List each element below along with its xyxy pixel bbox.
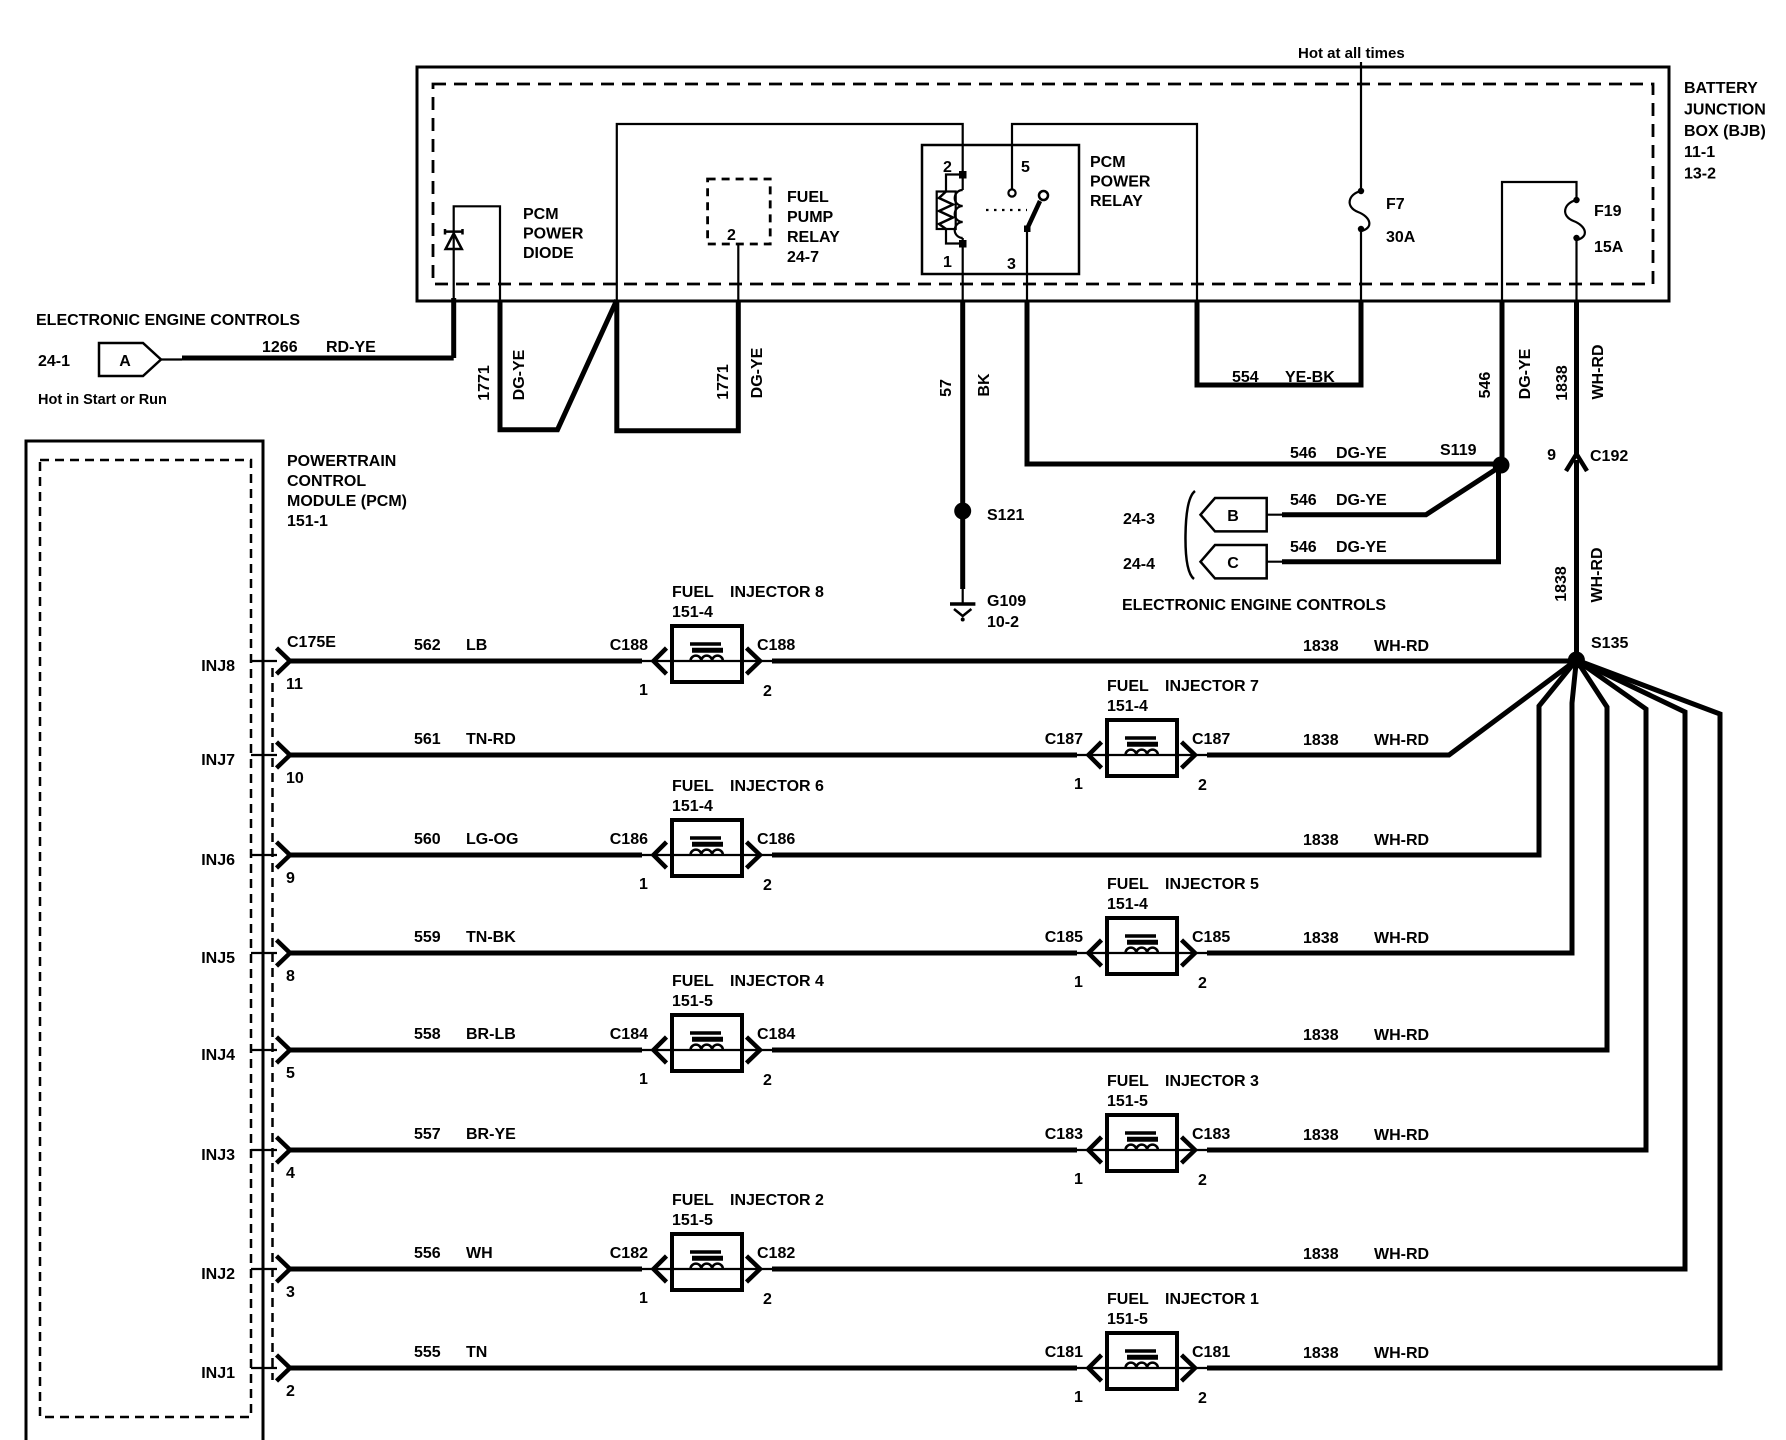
connector C185 right arrow — [1182, 940, 1196, 966]
connector C175E dashed line — [271, 668, 274, 1380]
svg-text:C184: C184 — [610, 1026, 648, 1043]
svg-text:DIODE: DIODE — [523, 245, 574, 262]
svg-text:WH-RD: WH-RD — [1589, 547, 1606, 602]
svg-text:S119: S119 — [1440, 442, 1477, 459]
svg-text:FUEL: FUEL — [1107, 678, 1149, 695]
svg-text:554: 554 — [1232, 369, 1259, 386]
connector C184 left arrow — [654, 1037, 667, 1063]
svg-text:1: 1 — [639, 1071, 648, 1088]
svg-text:MODULE (PCM): MODULE (PCM) — [287, 493, 407, 510]
svg-text:10-2: 10-2 — [987, 614, 1019, 631]
connector C183 left arrow — [1089, 1137, 1102, 1163]
wire 554 YE-BK — [1197, 301, 1361, 385]
svg-text:INJ2: INJ2 — [201, 1266, 235, 1283]
svg-text:JUNCTION: JUNCTION — [1684, 101, 1766, 118]
fuel injector 5 — [1107, 918, 1177, 974]
svg-text:INJECTOR 2: INJECTOR 2 — [730, 1192, 824, 1209]
svg-text:1: 1 — [1074, 1171, 1083, 1188]
svg-text:INJECTOR 5: INJECTOR 5 — [1165, 876, 1259, 893]
connector C183 right arrow — [1182, 1137, 1196, 1163]
svg-text:57: 57 — [938, 379, 955, 397]
wire through injector 6 — [642, 854, 772, 856]
svg-text:13-2: 13-2 — [1684, 166, 1716, 183]
label 560 LG-OG — [414, 831, 518, 848]
svg-text:INJ4: INJ4 — [201, 1047, 235, 1064]
svg-text:1838: 1838 — [1303, 832, 1339, 849]
label 557 BR-YE — [414, 1126, 516, 1143]
connector C185 left arrow — [1089, 940, 1102, 966]
svg-text:151-5: 151-5 — [672, 993, 713, 1010]
pcm power diode — [445, 206, 500, 358]
wire relay pin 2 feed from diode — [617, 124, 963, 301]
svg-text:TN: TN — [466, 1344, 487, 1361]
wire through injector 8 — [642, 660, 772, 662]
battery junction box label — [1684, 80, 1766, 183]
fuel pump relay label — [787, 189, 840, 266]
fuel injector 6 label — [672, 778, 824, 815]
wire 561 TN-RD PCM INJ7 pin 10 — [251, 754, 277, 756]
wire 546 DG-YE F19 left leg to S119 — [1500, 301, 1505, 465]
splice S121 — [954, 503, 971, 520]
svg-text:S121: S121 — [987, 507, 1024, 524]
svg-text:559: 559 — [414, 929, 441, 946]
svg-text:151-5: 151-5 — [672, 1212, 713, 1229]
svg-text:INJECTOR 4: INJECTOR 4 — [730, 973, 824, 990]
label 1838 WH-RD row INJ3 — [1303, 1127, 1429, 1144]
svg-text:INJ6: INJ6 — [201, 852, 235, 869]
fuel injector 4 — [672, 1015, 742, 1071]
svg-text:POWERTRAIN: POWERTRAIN — [287, 453, 396, 470]
svg-text:24-4: 24-4 — [1123, 556, 1155, 573]
svg-text:556: 556 — [414, 1245, 441, 1262]
wire 546 DG-YE relay pin 3 to S119 — [1026, 230, 1028, 301]
svg-text:8: 8 — [286, 968, 295, 985]
wire hot feed down to fuse F7 — [1360, 62, 1362, 190]
svg-text:BK: BK — [976, 373, 993, 397]
connector C188 left arrow — [654, 648, 667, 674]
svg-text:1266: 1266 — [262, 339, 298, 356]
fuse F7 30A — [1350, 188, 1416, 246]
label 1838 WH-RD row INJ5 — [1303, 930, 1429, 947]
svg-text:DG-YE: DG-YE — [511, 349, 528, 400]
wire 1838 WH-RD INJ1 to S135 — [1207, 660, 1720, 1368]
label 1838 WH-RD row INJ1 — [1303, 1345, 1429, 1362]
svg-text:555: 555 — [414, 1344, 441, 1361]
wire 556 WH PCM INJ2 pin 3 — [251, 1268, 277, 1270]
svg-text:Hot at all times: Hot at all times — [1298, 45, 1405, 62]
svg-text:2: 2 — [1198, 975, 1207, 992]
svg-text:1: 1 — [1074, 974, 1083, 991]
svg-text:C175E: C175E — [287, 634, 336, 651]
svg-text:C192: C192 — [1590, 448, 1628, 465]
svg-text:INJ1: INJ1 — [201, 1365, 235, 1382]
svg-text:C182: C182 — [610, 1245, 648, 1262]
brace for B and C — [1185, 491, 1195, 579]
wire through injector 2 — [642, 1268, 772, 1270]
label 1838 WH-RD row INJ2 — [1303, 1246, 1429, 1263]
fuel pump relay dashed box — [708, 179, 771, 244]
wire through injector 7 — [1077, 754, 1207, 756]
svg-text:546: 546 — [1290, 492, 1317, 509]
svg-text:INJECTOR 6: INJECTOR 6 — [730, 778, 824, 795]
svg-text:5: 5 — [1021, 159, 1030, 176]
svg-text:PCM: PCM — [523, 206, 559, 223]
wire F7 to 554 jog — [1360, 229, 1362, 301]
svg-text:INJECTOR 1: INJECTOR 1 — [1165, 1291, 1259, 1308]
wire 555 TN PCM INJ1 pin 2 — [251, 1367, 277, 1369]
svg-text:24-3: 24-3 — [1123, 511, 1155, 528]
label 562 LB — [414, 637, 487, 654]
svg-text:F7: F7 — [1386, 196, 1405, 213]
svg-text:DG-YE: DG-YE — [749, 347, 766, 398]
svg-text:POWER: POWER — [1090, 174, 1151, 191]
label 1266 RD-YE — [262, 339, 376, 356]
svg-text:561: 561 — [414, 731, 441, 748]
svg-text:2: 2 — [763, 1072, 772, 1089]
wire 1771 DG-YE diode jog — [500, 300, 617, 430]
label 558 BR-LB — [414, 1026, 516, 1043]
svg-text:2: 2 — [286, 1383, 295, 1400]
svg-text:546: 546 — [1477, 372, 1494, 399]
powertrain control module dashed boundary — [40, 460, 251, 1417]
wire 558 BR-LB PCM INJ4 pin 5 — [251, 1049, 277, 1051]
label 1838 WH-RD row INJ6 — [1303, 832, 1429, 849]
label 1838 WH-RD row INJ8 — [1303, 638, 1429, 655]
svg-text:1771: 1771 — [715, 364, 732, 400]
label 546 DG-YE — [1290, 445, 1387, 462]
svg-text:FUEL: FUEL — [1107, 1291, 1149, 1308]
svg-text:FUEL: FUEL — [1107, 876, 1149, 893]
svg-text:WH-RD: WH-RD — [1374, 1345, 1429, 1362]
svg-text:WH-RD: WH-RD — [1374, 1027, 1429, 1044]
svg-text:24-7: 24-7 — [787, 249, 819, 266]
svg-text:INJ3: INJ3 — [201, 1147, 235, 1164]
fuel injector 1 — [1107, 1333, 1177, 1389]
svg-text:C188: C188 — [757, 637, 795, 654]
fuel injector 8 label — [672, 584, 824, 621]
svg-text:C: C — [1227, 555, 1239, 572]
fuel injector 1 label — [1107, 1291, 1259, 1328]
svg-text:A: A — [119, 353, 131, 370]
svg-text:RELAY: RELAY — [1090, 193, 1143, 210]
svg-text:FUEL: FUEL — [672, 1192, 714, 1209]
label 554 YE-BK — [1232, 369, 1335, 386]
svg-text:DG-YE: DG-YE — [1336, 445, 1387, 462]
svg-text:INJECTOR 3: INJECTOR 3 — [1165, 1073, 1259, 1090]
svg-text:9: 9 — [1547, 447, 1556, 464]
svg-text:151-4: 151-4 — [1107, 698, 1148, 715]
svg-text:LG-OG: LG-OG — [466, 831, 518, 848]
svg-text:560: 560 — [414, 831, 441, 848]
battery junction box (BJB) outline — [417, 67, 1669, 301]
svg-text:BATTERY: BATTERY — [1684, 80, 1758, 97]
svg-text:PUMP: PUMP — [787, 209, 834, 226]
wire relay pin 5 to BJB — [1012, 124, 1197, 301]
svg-text:INJ8: INJ8 — [201, 658, 235, 675]
svg-text:1: 1 — [639, 876, 648, 893]
svg-text:5: 5 — [286, 1065, 295, 1082]
wire 1838 WH-RD INJ4 to S135 — [772, 660, 1607, 1050]
svg-text:INJECTOR 8: INJECTOR 8 — [730, 584, 824, 601]
pcm power diode label — [523, 206, 584, 262]
label 1838 WH-RD row INJ7 — [1303, 732, 1429, 749]
svg-text:2: 2 — [763, 877, 772, 894]
wire S121 to ground — [960, 511, 965, 589]
label 546 DG-YE row B — [1290, 492, 1387, 509]
svg-text:151-1: 151-1 — [287, 513, 328, 530]
svg-text:1838: 1838 — [1553, 566, 1570, 602]
wire 1838 WH-RD INJ8 to S135 — [772, 659, 1576, 664]
svg-text:WH-RD: WH-RD — [1374, 1127, 1429, 1144]
wire 1838 WH-RD INJ7 to S135 — [1207, 660, 1576, 755]
pcm power relay label — [1090, 154, 1151, 210]
wire 1838 WH-RD INJ2 to S135 — [772, 660, 1685, 1269]
svg-text:2: 2 — [727, 227, 736, 244]
svg-text:C186: C186 — [757, 831, 795, 848]
svg-text:9: 9 — [286, 870, 295, 887]
svg-text:3: 3 — [286, 1284, 295, 1301]
svg-text:10: 10 — [286, 770, 304, 787]
svg-text:2: 2 — [1198, 1390, 1207, 1407]
connector C186 left arrow — [654, 842, 667, 868]
svg-text:1: 1 — [1074, 1389, 1083, 1406]
battery junction box dashed boundary — [433, 84, 1653, 284]
svg-text:DG-YE: DG-YE — [1336, 539, 1387, 556]
svg-text:C187: C187 — [1192, 731, 1230, 748]
svg-text:FUEL: FUEL — [1107, 1073, 1149, 1090]
wire 1838 WH-RD INJ3 to S135 — [1207, 660, 1646, 1150]
svg-text:S135: S135 — [1591, 635, 1628, 652]
svg-text:RD-YE: RD-YE — [326, 339, 376, 356]
ground G109 — [950, 604, 975, 622]
svg-text:1: 1 — [639, 682, 648, 699]
wire 57 BK relay pin 1 — [962, 244, 964, 302]
svg-text:INJ7: INJ7 — [201, 752, 235, 769]
svg-text:1838: 1838 — [1554, 365, 1571, 401]
fuel injector 3 — [1107, 1115, 1177, 1171]
svg-text:CONTROL: CONTROL — [287, 473, 366, 490]
svg-text:C186: C186 — [610, 831, 648, 848]
svg-text:WH-RD: WH-RD — [1590, 344, 1607, 399]
svg-text:1: 1 — [639, 1290, 648, 1307]
connector C181 left arrow — [1089, 1355, 1102, 1381]
svg-text:FUEL: FUEL — [787, 189, 829, 206]
svg-text:WH-RD: WH-RD — [1374, 1246, 1429, 1263]
svg-text:WH-RD: WH-RD — [1374, 832, 1429, 849]
svg-text:24-1: 24-1 — [38, 353, 70, 370]
svg-text:151-4: 151-4 — [672, 604, 713, 621]
svg-text:POWER: POWER — [523, 226, 584, 243]
svg-text:2: 2 — [1198, 1172, 1207, 1189]
wire through injector 3 — [1077, 1149, 1207, 1151]
svg-text:WH: WH — [466, 1245, 493, 1262]
svg-text:1838: 1838 — [1303, 1027, 1339, 1044]
wire 1838 WH-RD INJ6 to S135 — [772, 660, 1576, 855]
powertrain control module box — [26, 441, 263, 1440]
wire through injector 1 — [1077, 1367, 1207, 1369]
svg-text:C185: C185 — [1045, 929, 1083, 946]
svg-text:1771: 1771 — [476, 365, 493, 401]
connector C184 right arrow — [747, 1037, 761, 1063]
wire 1838 WH-RD fuse F19 to C192 — [1575, 238, 1577, 301]
wire through injector 4 — [642, 1049, 772, 1051]
pcm power relay coil — [937, 171, 967, 248]
svg-text:1838: 1838 — [1303, 1345, 1339, 1362]
connector C182 right arrow — [747, 1256, 761, 1282]
svg-text:C181: C181 — [1045, 1344, 1083, 1361]
svg-text:1838: 1838 — [1303, 732, 1339, 749]
fuel injector 5 label — [1107, 876, 1259, 913]
svg-text:G109: G109 — [987, 593, 1026, 610]
svg-text:FUEL: FUEL — [672, 584, 714, 601]
label 1838 WH-RD row INJ4 — [1303, 1027, 1429, 1044]
wire through injector 5 — [1077, 952, 1207, 954]
svg-text:2: 2 — [763, 683, 772, 700]
fuel injector 4 label — [672, 973, 824, 1010]
svg-text:TN-BK: TN-BK — [466, 929, 516, 946]
wire 546 DG-YE from B to S119 — [1267, 514, 1284, 516]
svg-text:WH-RD: WH-RD — [1374, 732, 1429, 749]
svg-text:3: 3 — [1007, 256, 1016, 273]
pcm power relay box — [922, 145, 1079, 274]
connector C186 right arrow — [747, 842, 761, 868]
svg-text:2: 2 — [943, 159, 952, 176]
svg-text:15A: 15A — [1594, 239, 1624, 256]
wire 562 LB PCM INJ8 pin 11 — [251, 660, 277, 662]
svg-text:151-5: 151-5 — [1107, 1311, 1148, 1328]
svg-text:151-4: 151-4 — [672, 798, 713, 815]
pcm power relay switch — [986, 189, 1048, 232]
svg-text:DG-YE: DG-YE — [1517, 348, 1534, 399]
powertrain control module label — [287, 453, 407, 530]
wire F19 feed — [1502, 182, 1577, 301]
svg-text:2: 2 — [763, 1291, 772, 1308]
svg-text:30A: 30A — [1386, 229, 1416, 246]
fuel injector 3 label — [1107, 1073, 1259, 1110]
svg-text:C182: C182 — [757, 1245, 795, 1262]
svg-text:1: 1 — [1074, 776, 1083, 793]
svg-text:C188: C188 — [610, 637, 648, 654]
fuel injector 6 — [672, 820, 742, 876]
svg-text:4: 4 — [286, 1165, 295, 1182]
svg-text:2: 2 — [1198, 777, 1207, 794]
connector C187 right arrow — [1182, 742, 1196, 768]
connector C187 left arrow — [1089, 742, 1102, 768]
svg-text:11-1: 11-1 — [1684, 144, 1715, 161]
fuel injector 8 — [672, 626, 742, 682]
svg-text:ELECTRONIC ENGINE CONTROLS: ELECTRONIC ENGINE CONTROLS — [1122, 597, 1386, 614]
svg-text:Hot in Start or Run: Hot in Start or Run — [38, 392, 167, 408]
svg-text:C184: C184 — [757, 1026, 795, 1043]
label 559 TN-BK — [414, 929, 516, 946]
connector C181 right arrow — [1182, 1355, 1196, 1381]
svg-text:C183: C183 — [1192, 1126, 1230, 1143]
svg-text:DG-YE: DG-YE — [1336, 492, 1387, 509]
svg-text:LB: LB — [466, 637, 487, 654]
svg-text:557: 557 — [414, 1126, 441, 1143]
label 555 TN — [414, 1344, 487, 1361]
svg-text:WH-RD: WH-RD — [1374, 638, 1429, 655]
svg-text:562: 562 — [414, 637, 441, 654]
svg-text:INJ5: INJ5 — [201, 950, 235, 967]
svg-text:PCM: PCM — [1090, 154, 1126, 171]
label 556 WH — [414, 1245, 493, 1262]
svg-text:BOX (BJB): BOX (BJB) — [1684, 123, 1766, 140]
svg-text:F19: F19 — [1594, 203, 1622, 220]
svg-text:1838: 1838 — [1303, 638, 1339, 655]
fuel injector 2 — [672, 1234, 742, 1290]
svg-text:ELECTRONIC ENGINE CONTROLS: ELECTRONIC ENGINE CONTROLS — [36, 312, 300, 329]
svg-text:BR-YE: BR-YE — [466, 1126, 516, 1143]
wire 1771 DG-YE to fuel pump relay — [617, 300, 739, 431]
wire 1838 WH-RD INJ5 to S135 — [1207, 660, 1576, 953]
label 546 DG-YE row C — [1290, 539, 1387, 556]
svg-text:YE-BK: YE-BK — [1285, 369, 1335, 386]
svg-text:151-5: 151-5 — [1107, 1093, 1148, 1110]
svg-text:C181: C181 — [1192, 1344, 1230, 1361]
svg-text:546: 546 — [1290, 539, 1317, 556]
wire 557 BR-YE PCM INJ3 pin 4 — [251, 1149, 277, 1151]
wire 546 DG-YE from C to S119 — [1267, 561, 1284, 563]
fuel injector 7 label — [1107, 678, 1259, 715]
svg-text:558: 558 — [414, 1026, 441, 1043]
svg-text:FUEL: FUEL — [672, 973, 714, 990]
svg-text:1838: 1838 — [1303, 1127, 1339, 1144]
svg-text:RELAY: RELAY — [787, 229, 840, 246]
fuel injector 2 label — [672, 1192, 824, 1229]
wire 559 TN-BK PCM INJ5 pin 8 — [251, 952, 277, 954]
svg-text:11: 11 — [286, 676, 303, 693]
svg-text:WH-RD: WH-RD — [1374, 930, 1429, 947]
svg-text:B: B — [1227, 508, 1239, 525]
splice S135 — [1568, 652, 1585, 669]
fuel injector 7 — [1107, 720, 1177, 776]
wire 560 LG-OG PCM INJ6 pin 9 — [251, 854, 277, 856]
svg-text:FUEL: FUEL — [672, 778, 714, 795]
fuse F19 15A — [1565, 197, 1624, 256]
splice S119 — [1493, 457, 1510, 474]
wire 1838 WH-RD C192 to S135 — [1574, 460, 1579, 660]
wire 1266 RD-YE from connector A — [161, 358, 182, 360]
svg-text:1838: 1838 — [1303, 1246, 1339, 1263]
connector C192 — [1566, 454, 1587, 471]
svg-text:TN-RD: TN-RD — [466, 731, 516, 748]
svg-text:1: 1 — [943, 254, 952, 271]
label 561 TN-RD — [414, 731, 516, 748]
svg-text:C183: C183 — [1045, 1126, 1083, 1143]
svg-text:C187: C187 — [1045, 731, 1083, 748]
svg-text:C185: C185 — [1192, 929, 1230, 946]
connector C188 right arrow — [747, 648, 761, 674]
svg-text:INJECTOR 7: INJECTOR 7 — [1165, 678, 1259, 695]
connector C182 left arrow — [654, 1256, 667, 1282]
svg-text:151-4: 151-4 — [1107, 896, 1148, 913]
svg-text:1838: 1838 — [1303, 930, 1339, 947]
svg-text:546: 546 — [1290, 445, 1317, 462]
svg-text:BR-LB: BR-LB — [466, 1026, 516, 1043]
